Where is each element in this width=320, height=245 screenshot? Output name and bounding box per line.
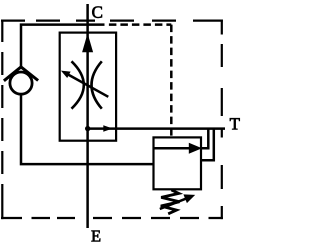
relief valve flow arrow <box>154 147 190 150</box>
relief valve spring <box>161 190 180 214</box>
pilot line vertical (dashed) <box>170 25 173 138</box>
wire: left branch down from check valve to lower line <box>21 95 154 164</box>
wire: upstream branch line from check valve to C node (solid) <box>21 25 105 68</box>
junction node dot <box>85 126 90 131</box>
variable orifice left curve <box>72 61 84 108</box>
enclosure dashed border right <box>221 20 223 220</box>
enclosure dashed border bottom <box>1 217 223 219</box>
flow control valve body (rectangle) <box>60 33 116 141</box>
label T <box>230 118 240 129</box>
adjustment arrow through orifice <box>68 74 109 96</box>
label C <box>92 6 102 17</box>
main line C to E (port C top, through valve, port E bottom) <box>86 4 89 228</box>
up arrow (flow direction) <box>82 33 93 52</box>
arrowhead on T line inside valve body <box>103 125 112 132</box>
enclosure dashed border top <box>1 20 223 22</box>
wire: T line from junction to port T <box>88 127 225 130</box>
enclosure dashed border left <box>1 20 3 220</box>
check valve seat <box>4 67 38 81</box>
spring adjustment arrow <box>160 199 186 209</box>
pilot line (dashed) from C node to relief valve top <box>109 23 171 26</box>
label E <box>91 231 100 242</box>
wire: relief drain stub to T line <box>201 129 214 161</box>
variable orifice right curve <box>92 61 102 108</box>
relief valve body (square) <box>154 137 202 189</box>
check valve ball <box>10 72 32 94</box>
wire: relief outlet stub to T line <box>201 129 208 149</box>
